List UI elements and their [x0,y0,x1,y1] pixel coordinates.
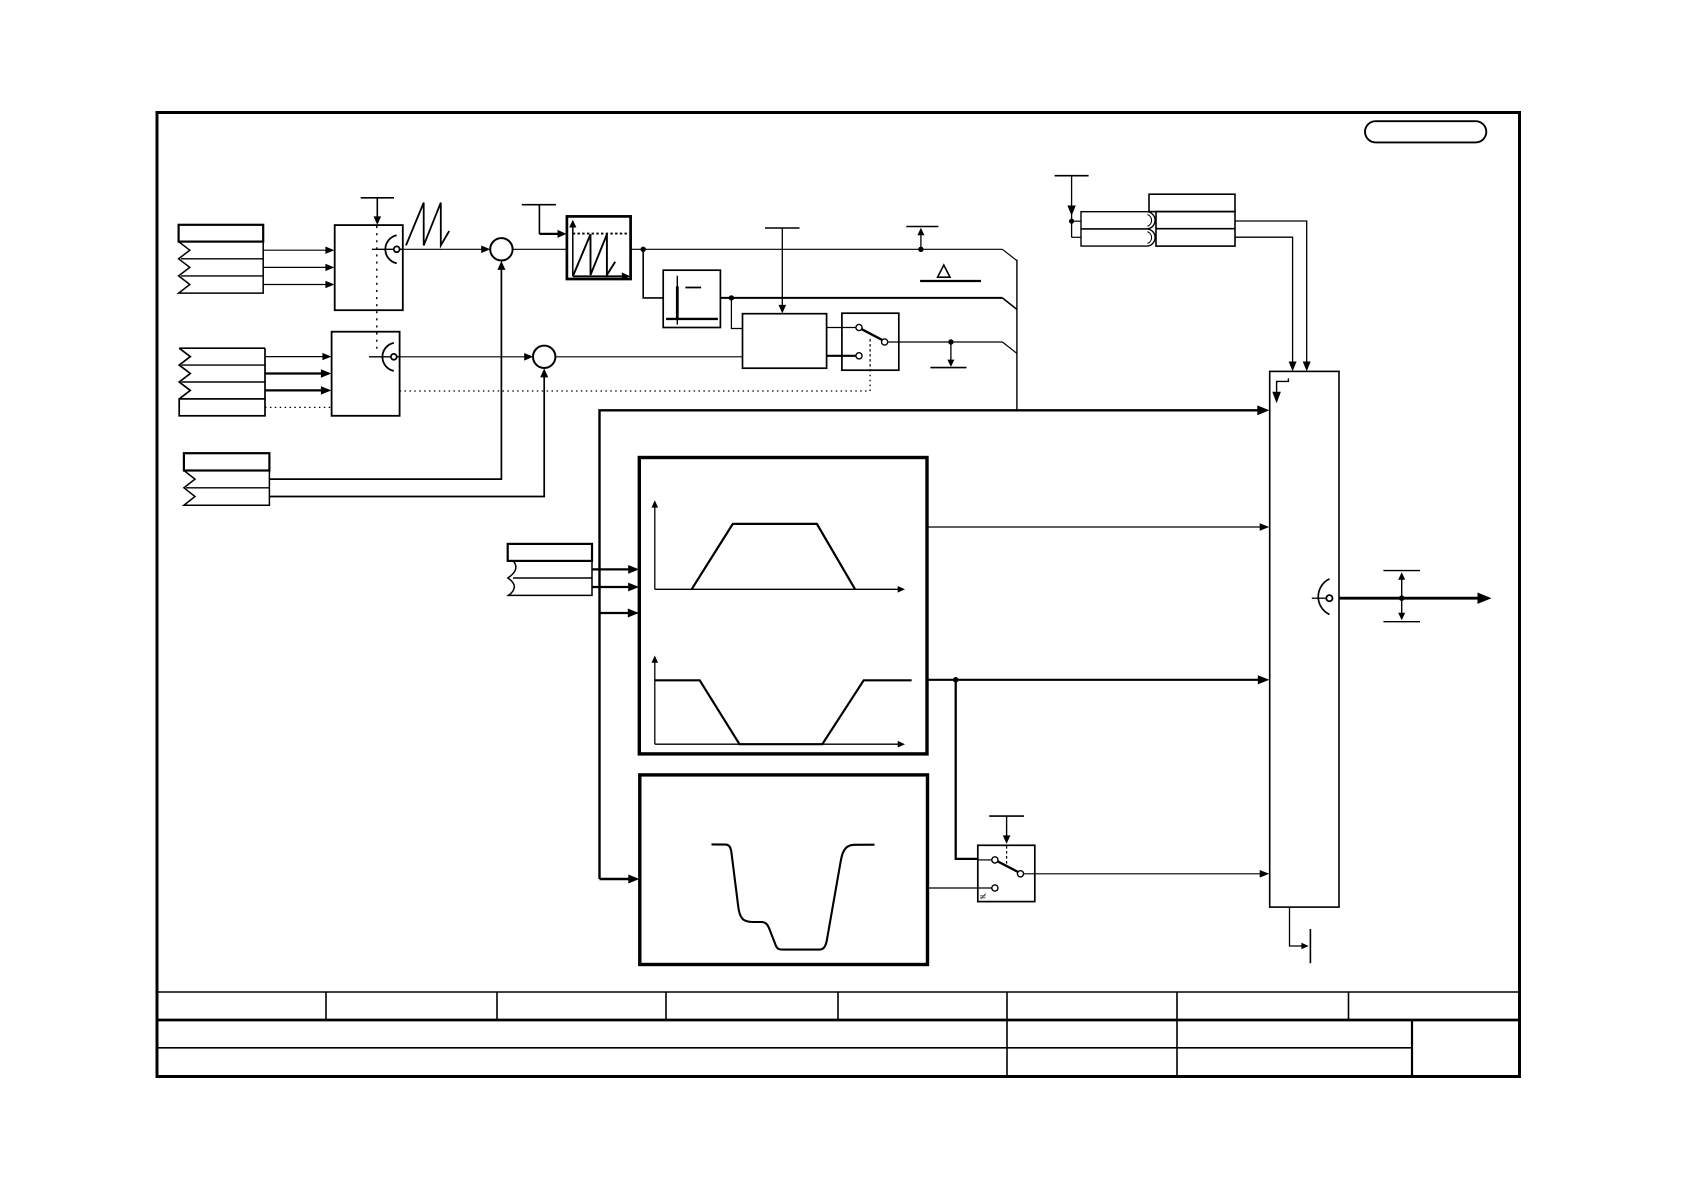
wire P4.3 to K1 (bold) [592,586,631,588]
selector block U2 [332,332,400,416]
down-arrow tap on wire C [950,342,952,361]
wire P1.2 to U1 [263,249,327,251]
wire SW2 output to ramp unit [1024,873,1262,875]
dotted riser to SW1 [869,370,871,391]
title block [157,992,1520,1077]
T-bar input above SW2 [989,815,1024,817]
stub U3 to switch SW1 lower (bold) [827,355,856,357]
wire P1.4 to U1 [263,284,327,286]
branch down to switch SW2 [956,680,978,859]
ramp-function generator U4 [567,216,631,279]
wire P3.2 up to S1 [269,263,501,479]
wire K1 lower output to ramp unit (bold) [927,679,1260,681]
summing circle S1 [490,238,512,260]
T-bar input to P5 [1055,175,1089,177]
selector block U1 [335,225,403,310]
wire P1.3 to U1 [263,266,327,268]
wire P5 row3 to U6 top [1235,237,1293,364]
branch wire B down to hold block U3 [731,298,742,329]
chart A axes [654,506,656,589]
switch SW2 [978,845,1035,901]
dotted binector from P2.4 [265,406,332,408]
binector dotted line in U1 [376,226,378,351]
trunk wire to ramp unit [600,410,1260,879]
off-page connector from U6 bottom [1290,907,1302,946]
wire P4.2 to K1 (bold) [592,568,631,570]
connector stack P2 (inputs to selector U2) [179,348,265,416]
wire P5 row2 to U6 top [1235,221,1307,365]
wire U1 out to summing node [403,248,483,250]
rounding box K2 [640,775,928,965]
chart B inverse trapezoid [655,680,912,744]
trunk tee arrow into box K1 [600,612,631,614]
connector stack P3 [184,453,270,505]
chamfer C into bus [1002,342,1017,353]
limiter marks on output [1383,570,1420,572]
main output wire of U6 [1339,597,1479,600]
sawtooth glyph W1 [406,203,449,246]
connector stack P1 (inputs to selector U1) [179,225,264,293]
dotted binector net [400,390,870,392]
smoothing symbol in U6 [1312,597,1326,599]
hold block U3 [743,314,827,369]
junction [729,295,734,300]
chamfer A into bus [1002,249,1017,260]
bathtub curve [712,844,875,949]
step-input symbol above ramp generator [522,205,556,234]
connector stack P4 [508,544,592,596]
T-bar input above U1 [361,198,394,218]
switch SW1 [842,313,899,370]
junction [953,677,959,683]
indexed parameter stack P5 (top right) [1149,194,1235,246]
stub U3 to switch SW1 upper [827,327,856,329]
wire B: limiter output [720,297,1002,299]
delta symbol [938,265,950,277]
wire P2.1 to U2 [265,356,324,358]
summing circle S2 [533,346,555,368]
junction [641,247,646,252]
limiter block U5 [663,270,720,327]
junction [918,247,923,252]
chamfer B into bus [1002,298,1017,310]
wire A: ramp generator output [631,248,1003,250]
wire S1 to ramp generator [513,248,567,250]
junction [948,339,953,344]
smoothing symbol in U1 [372,248,403,250]
bus vertical [1016,260,1018,411]
page label pill [1365,121,1486,142]
up-arrow tap on wire A [920,234,922,249]
wire K2 output to SW2 [928,887,992,889]
wire P3.3 up to S2 [269,371,544,497]
junction on output [1399,595,1405,601]
chart B axes [654,661,656,744]
wire U2 out to summing node S2 [400,356,526,358]
branch wire A down to limiter block [643,249,663,298]
not-equal glyph [980,894,986,899]
trunk arrow into box K2 [600,878,631,880]
wire C: switch SW1 output [888,341,1003,343]
wire P2.3 to U2 (bold) [265,389,323,391]
chart A trapezoid [692,524,856,589]
T-bar input above U3 [765,227,800,229]
wire K1 upper output to ramp unit [927,526,1262,528]
smoothing symbol in U2 [369,356,400,358]
stub into SW2 upper contact [978,859,992,861]
edge-trigger symbol in U6 [1277,378,1289,392]
wire S2 to hold block U3 [555,356,742,358]
ramp-up/ramp-down box K1 [639,458,927,754]
frame border [157,113,1520,1077]
wire P2.2 to U2 (bold) [265,372,323,374]
ramp unit block U6 [1270,371,1339,907]
